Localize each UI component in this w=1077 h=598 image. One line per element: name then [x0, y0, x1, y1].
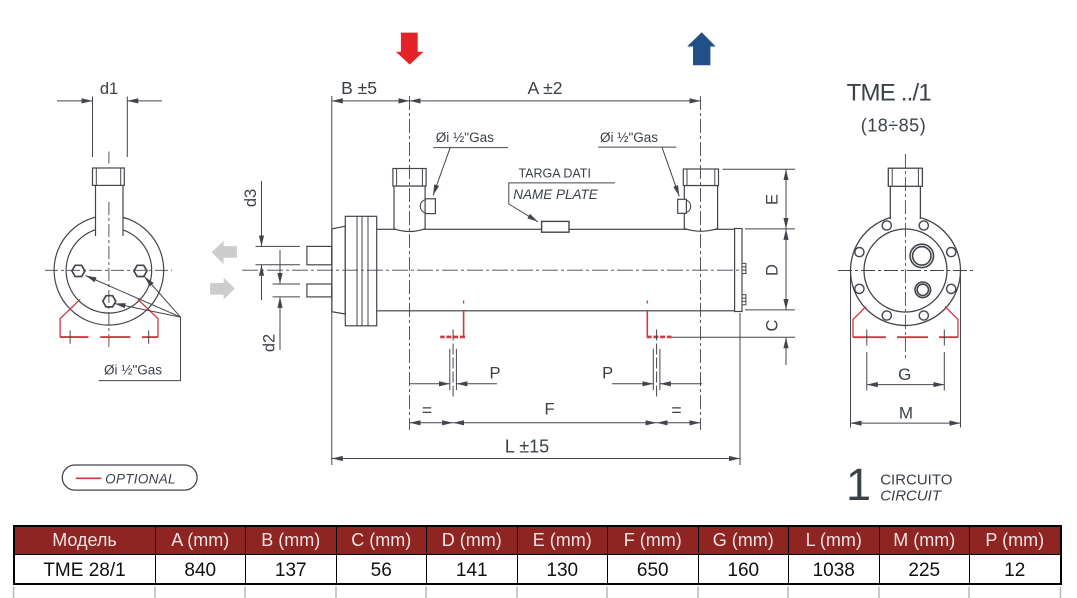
right end plate — [735, 229, 742, 312]
shell centerline — [242, 269, 740, 271]
G extension lines — [866, 352, 868, 391]
svg-text:CIRCUITO: CIRCUITO — [880, 472, 952, 489]
right view connection port large — [910, 244, 933, 297]
svg-text:OPTIONAL: OPTIONAL — [105, 472, 176, 487]
flange stack — [345, 216, 376, 325]
svg-text:F: F — [544, 401, 554, 419]
svg-text:Øi ½"Gas: Øi ½"Gas — [436, 130, 494, 145]
name plate leader — [509, 183, 615, 222]
ext line right shell face — [739, 313, 741, 465]
left view hex plug right — [134, 265, 147, 276]
dim L — [332, 458, 740, 460]
blue outlet arrow — [687, 32, 716, 65]
svg-text:1: 1 — [846, 459, 871, 510]
svg-text:M: M — [899, 404, 913, 423]
svg-text:D: D — [764, 264, 782, 276]
right view centerlines — [838, 154, 973, 360]
cropped next row column stubs — [0, 0, 1077, 1]
right end tab upper — [742, 263, 746, 273]
dim M — [851, 422, 961, 424]
dimensions table — [13, 525, 1062, 585]
left port side plug — [420, 200, 425, 213]
dim d3 — [256, 245, 301, 247]
shell body — [374, 229, 735, 310]
right view pipe cap — [888, 168, 922, 186]
dim E D C stack — [723, 168, 796, 170]
left end view inner circle — [66, 227, 152, 313]
gray arrow pointing right — [210, 278, 235, 300]
svg-text:B ±5: B ±5 — [341, 78, 377, 98]
right view flange circle — [851, 216, 961, 326]
svg-text:A ±2: A ±2 — [528, 78, 563, 98]
right port axis — [700, 96, 702, 430]
left view vertical centerline — [108, 152, 110, 164]
left view hex plug bottom — [103, 296, 116, 307]
tube stub upper (d3) — [307, 246, 332, 264]
dim = left — [410, 422, 454, 424]
right view inner circle — [864, 229, 947, 312]
dim = right — [657, 422, 701, 424]
foot bolt axis right — [653, 330, 660, 398]
dim P left — [410, 383, 450, 385]
RIGHT END VIEW — [851, 168, 961, 325]
right end tab lower — [742, 295, 746, 305]
left view pipe cap — [93, 168, 125, 185]
svg-text:L ±15: L ±15 — [505, 437, 549, 457]
dimension d1 — [57, 97, 162, 158]
right port body — [684, 186, 717, 232]
DIMENSIONS MAIN VIEW — [256, 96, 796, 465]
left view optional foot bracket right — [138, 299, 158, 337]
ext line left shell face — [331, 96, 333, 465]
right port side plug — [686, 200, 690, 212]
svg-text:P: P — [489, 365, 500, 383]
left port body — [394, 186, 425, 232]
svg-text:d3: d3 — [242, 189, 260, 207]
dim G — [867, 384, 945, 386]
tube stub lower (d2) — [307, 284, 332, 297]
left view inlet pipe body — [96, 183, 124, 236]
svg-text:E: E — [764, 194, 782, 205]
name plate — [542, 221, 569, 232]
svg-text:TARGA DATI: TARGA DATI — [518, 167, 590, 181]
svg-text:(18÷85): (18÷85) — [861, 116, 926, 136]
optional legend pill — [62, 465, 197, 490]
svg-text:Øi ½"Gas: Øi ½"Gas — [104, 363, 162, 378]
foot bolt ticks — [866, 330, 868, 346]
right view connection port small — [915, 282, 931, 298]
svg-text:CIRCUIT: CIRCUIT — [880, 488, 943, 505]
svg-text:d2: d2 — [261, 334, 279, 352]
left view foot bolt tick right — [148, 330, 150, 343]
left view foot base dashed — [60, 336, 158, 338]
left port axis — [409, 96, 411, 430]
svg-text:=: = — [671, 400, 681, 420]
left view foot bolt tick left — [69, 330, 71, 343]
left view optional foot bracket left — [60, 299, 80, 337]
dim d2 — [273, 283, 301, 285]
red inlet arrow — [396, 33, 424, 65]
gas label leader right port — [598, 146, 676, 148]
left view horizontal centerline — [45, 269, 172, 271]
svg-text:NAME PLATE: NAME PLATE — [513, 187, 599, 202]
bonnet — [332, 226, 345, 314]
gray arrow pointing left — [212, 241, 237, 264]
M extension lines — [850, 272, 852, 428]
svg-text:d1: d1 — [100, 80, 118, 98]
right view pipe body — [890, 184, 920, 219]
right port cap — [683, 169, 718, 186]
dim P right — [612, 383, 653, 385]
right view bolt holes — [855, 221, 956, 320]
leader lines to gas plugs — [86, 276, 181, 318]
svg-text:C: C — [764, 319, 782, 331]
foot bolt axis left — [450, 330, 457, 398]
svg-text:Øi ½"Gas: Øi ½"Gas — [600, 130, 658, 145]
svg-text:P: P — [602, 365, 613, 383]
right view dims — [851, 272, 961, 428]
dim B — [332, 100, 410, 102]
left view hex plug left — [72, 265, 85, 276]
svg-text:TME ../1: TME ../1 — [847, 80, 932, 107]
optional foot right (red) — [647, 301, 672, 337]
gas label leader left port — [433, 147, 508, 149]
dim F — [453, 422, 656, 424]
left end view outer circle — [54, 215, 164, 325]
right view optional bracket (red) — [853, 307, 958, 338]
MAIN SIDE VIEW — [307, 216, 746, 325]
left port cap — [393, 169, 426, 187]
svg-text:G: G — [898, 365, 911, 384]
svg-text:=: = — [422, 400, 432, 420]
dim A — [410, 100, 701, 102]
optional foot left (red) — [440, 301, 465, 337]
